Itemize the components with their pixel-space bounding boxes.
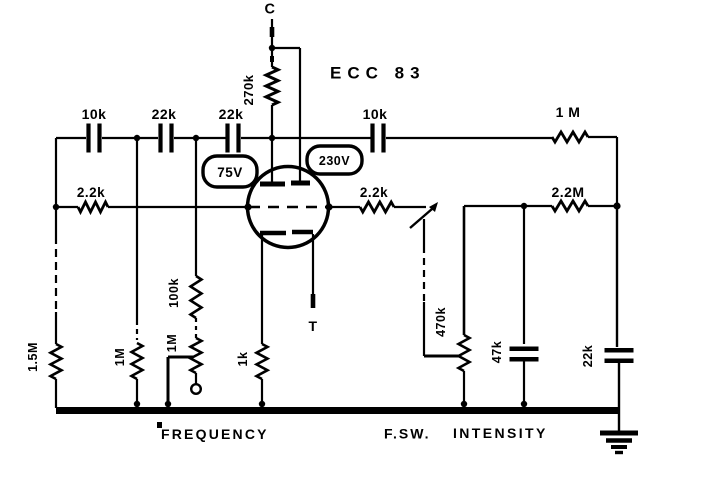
svg-text:F.SW.: F.SW. [384, 426, 431, 442]
node junction grid row left [53, 204, 59, 210]
op-amp ECC83 tube envelope [248, 167, 329, 248]
wire C4 to resistor 1M [386, 137, 552, 139]
node junction top row x196 [193, 135, 199, 141]
wire switch down [423, 219, 425, 356]
label 75V voltage callout [203, 156, 257, 187]
node T terminal label [308, 318, 317, 334]
resistor 100k [191, 276, 202, 318]
node junction pot tap bus [165, 401, 171, 407]
label 22k right [581, 345, 595, 367]
tube right cathode [292, 230, 313, 235]
resistor 2.2M [552, 201, 588, 211]
wire C2 to C3 [174, 137, 226, 139]
svg-text:T: T [308, 318, 317, 334]
tube right anode plate [291, 181, 310, 186]
capacitor 47k [510, 349, 539, 360]
label F.SW. [384, 426, 431, 442]
svg-text:75V: 75V [217, 165, 243, 180]
wire 2.2M row [464, 205, 552, 207]
label 270k [241, 74, 256, 105]
switch F.SW arm with arrow [410, 202, 438, 228]
label 470k [434, 307, 448, 337]
wire 22k cap to ground [618, 362, 620, 432]
svg-text:47k: 47k [490, 341, 504, 363]
label FREQUENCY [157, 422, 269, 442]
wire 47k cap to ground bus [523, 360, 525, 408]
svg-text:270k: 270k [241, 74, 256, 105]
svg-text:1 M: 1 M [556, 104, 581, 120]
label 47k [490, 341, 504, 363]
svg-text:22k: 22k [581, 345, 595, 367]
wire 470k to ground bus [463, 371, 465, 408]
resistor 1k [257, 344, 268, 379]
label 1.5M [26, 342, 40, 372]
wire vertical x196 [195, 138, 197, 276]
label 1M left [113, 348, 127, 366]
svg-text:1M: 1M [165, 334, 179, 352]
wire top row left corner segment [56, 137, 86, 139]
label 2.2k right [360, 185, 388, 200]
node junction right vertical 2.2M [613, 202, 620, 209]
svg-text:2.2k: 2.2k [360, 185, 388, 200]
capacitor 22k right [605, 350, 634, 361]
wire right vertical to 22k cap [616, 206, 618, 347]
wire grid row left [56, 206, 247, 208]
wire 2.2M left corner down [463, 206, 466, 335]
resistor 2.2k left [78, 202, 108, 212]
svg-text:10k: 10k [82, 106, 107, 122]
svg-text:2.2M: 2.2M [551, 184, 584, 200]
resistor 1M left [132, 343, 143, 379]
wire pot bottom to open terminal [195, 373, 197, 384]
svg-text:1k: 1k [236, 352, 250, 367]
wire C junction down to resistor 270k [271, 48, 273, 67]
wire left cathode lead down [261, 235, 263, 344]
wire 1M left to ground bus [136, 379, 138, 408]
wire grid row right [330, 206, 360, 208]
wire C terminal down to junction [271, 19, 273, 48]
tube grid dashed line [249, 206, 328, 209]
label 10k C4 [363, 106, 388, 122]
svg-text:FREQUENCY: FREQUENCY [161, 426, 269, 442]
wire C1 to C2 [102, 137, 158, 139]
wire resistor 270k to top row [271, 105, 273, 138]
label INTENSITY [453, 425, 548, 441]
node junction 470k bus [461, 401, 467, 407]
wire 2.2M to right vertical [588, 205, 617, 207]
label ECC 83 tube type [330, 64, 426, 83]
node junction top row x137 [134, 135, 140, 141]
node grid left terminal [244, 203, 251, 210]
label 100k [167, 278, 181, 308]
wire 2.2k right to switch [394, 206, 426, 208]
node C terminal label [265, 2, 276, 18]
wire left vertical x56 [55, 138, 57, 344]
svg-text:ECC 83: ECC 83 [330, 64, 426, 83]
wire right cathode lead to T [312, 234, 314, 308]
wire 47k branch down [523, 206, 525, 344]
tube left anode plate [260, 182, 285, 187]
label 1M pot [165, 334, 179, 352]
resistor 2.2k right [360, 202, 394, 212]
wire switch link to 470k [424, 355, 461, 358]
wire 1M to right corner [588, 137, 617, 206]
tube left cathode [260, 231, 286, 236]
svg-text:2.2k: 2.2k [77, 185, 105, 200]
svg-text:INTENSITY: INTENSITY [453, 425, 548, 441]
node junction 47k bus [521, 401, 527, 407]
resistor 1M top right [552, 132, 588, 142]
svg-text:10k: 10k [363, 106, 388, 122]
svg-text:1M: 1M [113, 348, 127, 366]
node junction 1M bus [134, 401, 140, 407]
resistor 470k [459, 335, 470, 371]
label 1k [236, 352, 250, 367]
node junction 1k bus [259, 401, 265, 407]
ground symbol [600, 433, 638, 453]
ground bus [56, 407, 618, 414]
capacitor 22k C2 [161, 124, 172, 153]
label 22k C3 [219, 106, 244, 122]
label 230V voltage callout [307, 146, 362, 174]
label 1M top right [556, 104, 581, 120]
svg-text:22k: 22k [152, 106, 177, 122]
svg-text:230V: 230V [319, 154, 350, 168]
wire vertical x137 [136, 138, 138, 340]
wire 1k to ground bus [261, 379, 263, 408]
node open terminal circle [191, 384, 201, 394]
node junction 47k top [521, 203, 527, 209]
wire 1.5M to ground bus [55, 379, 57, 408]
node junction 270k / top row / left anode [269, 135, 275, 141]
wire branch from C junction to right anode [272, 48, 300, 181]
capacitor 22k C3 [228, 124, 239, 153]
svg-text:100k: 100k [167, 278, 181, 308]
svg-text:1.5M: 1.5M [26, 342, 40, 372]
svg-text:470k: 470k [434, 307, 448, 337]
label 10k C1 [82, 106, 107, 122]
resistor 1.5M [51, 344, 62, 379]
capacitor 10k C1 [89, 124, 100, 153]
wire pot tap to ground bus [168, 357, 193, 408]
wire left anode lead [271, 138, 273, 182]
label 22k C2 [152, 106, 177, 122]
wire C3 to capacitor 10k C4 [241, 137, 371, 139]
svg-text:22k: 22k [219, 106, 244, 122]
svg-text:C: C [265, 2, 276, 18]
resistor 270k [266, 67, 278, 105]
node junction at C branch [269, 45, 275, 51]
capacitor 10k C4 [373, 124, 384, 153]
node grid right terminal [325, 203, 332, 210]
wire 100k to pot dashed [195, 318, 197, 338]
label 2.2M [551, 184, 584, 200]
potentiometer 1M frequency [191, 338, 202, 373]
label 2.2k left [77, 185, 105, 200]
